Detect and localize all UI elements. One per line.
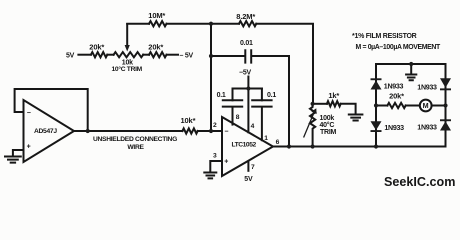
junction node 10M/8.2M [209,22,213,26]
wire 8.2M left [211,23,239,25]
svg-text:8: 8 [236,114,240,121]
junction node -5V rail [246,87,250,91]
svg-text:0.1: 0.1 [267,92,276,99]
wire pin 8 [232,107,234,124]
svg-text:6: 6 [276,139,280,146]
wire 0.01 branch left [211,55,244,57]
junction node 0.01 [209,54,213,58]
junction node bridge right mid [443,103,447,107]
resistor 8.2M [239,21,256,26]
wire [107,54,113,56]
wire pin 1 [261,107,263,140]
arrow wiper 10k pot [125,45,130,52]
junction node 100k bottom [311,144,315,148]
wire pin 8 cap to rail [232,89,234,101]
svg-text:−5V: −5V [239,70,251,77]
svg-text:UNSHIELDED CONNECTING: UNSHIELDED CONNECTING [93,136,177,143]
svg-text:0.01: 0.01 [240,40,253,47]
svg-text:100k: 100k [320,115,335,122]
svg-text:10°C TRIM: 10°C TRIM [112,65,143,73]
diode D4 1N933 bottom-right [440,121,451,130]
wire 10M top [127,23,149,25]
wire 20k to meter [406,105,420,107]
wire to -5V [167,54,179,56]
node 5V input wire [78,54,91,56]
svg-text:1N933: 1N933 [417,83,437,91]
wire 8.2M right and down [256,24,313,104]
wire + input to ground [13,150,24,156]
meter M movement [420,100,432,112]
wire bridge top [376,63,446,65]
svg-text:M = 0µA–100µA MOVEMENT: M = 0µA–100µA MOVEMENT [356,44,442,51]
resistor 20k right [149,52,167,57]
resistor 1k [327,101,341,106]
wire -5V rail [233,88,262,90]
wire bridge right vertical [445,64,447,147]
wire bridge ground stub [410,64,412,74]
wire meter to right vertical [432,105,446,107]
svg-text:M: M [423,101,429,110]
wire pin 1 cap to rail [261,89,263,101]
op-amp U2 LTC1052 [222,117,273,176]
svg-text:0.1: 0.1 [217,92,226,99]
wire pin 7 [247,162,249,171]
diode D1 1N933 top-left [371,80,382,89]
svg-text:1k*: 1k* [328,91,339,100]
op-amp U1 AD547J [24,100,75,162]
svg-text:40°C: 40°C [320,121,335,129]
resistor 20k bridge [387,103,405,108]
wire 1k to ground [341,104,356,114]
wire output pin 6 [273,146,446,148]
wire [143,54,149,56]
wire pin 4 to -5V [247,77,249,133]
svg-text:5V: 5V [244,176,253,183]
potentiometer 100k 40C TRIM [310,104,315,147]
arrow wiper 100k pot [304,108,317,137]
svg-text:*1% FILM RESISTOR: *1% FILM RESISTOR [352,33,417,40]
svg-text:3: 3 [213,152,217,159]
svg-text:1N933: 1N933 [417,124,437,132]
svg-text:1N933: 1N933 [384,83,404,91]
wire op-amp output [74,130,182,132]
ground 1k [349,115,363,121]
junction node AD547J output [86,129,90,133]
resistor 20k left [91,52,107,57]
svg-text:5V: 5V [66,53,75,60]
wire main vertical summing node [210,24,212,131]
svg-text:AD547J: AD547J [34,128,57,135]
wire 10M to summing node [167,23,212,25]
svg-text:10M*: 10M* [148,11,165,20]
svg-text:8.2M*: 8.2M* [236,12,255,21]
potentiometer 10k 10C TRIM [114,52,144,57]
ground LTC pin 3 [204,173,216,179]
capacitor 0.01 [245,50,251,62]
capacitor 0.1 right [252,100,271,106]
wire wiper vertical [126,24,128,47]
svg-text:+: + [224,159,228,166]
svg-text:2: 2 [213,122,217,129]
diode D3 1N933 bottom-left [371,121,382,130]
svg-text:7: 7 [251,164,255,171]
ground AD547J [5,157,21,163]
svg-text:10k*: 10k* [181,116,196,125]
svg-text:1N933: 1N933 [384,124,404,132]
svg-text:20k*: 20k* [89,42,104,51]
svg-text:−: − [27,110,31,117]
svg-text:20k*: 20k* [148,42,163,51]
junction node bridge ground [409,62,413,66]
svg-text:TRIM: TRIM [320,129,337,136]
diode D2 1N933 top-right [440,78,451,88]
resistor 10k unshielded [182,128,197,133]
junction node bridge left bottom [374,144,378,148]
svg-text:4: 4 [251,123,255,130]
svg-text:1: 1 [264,135,268,142]
wire 1k left [313,103,327,105]
svg-text:LTC1052: LTC1052 [232,142,257,149]
resistor 10M [149,21,167,26]
wire feedback loop [15,89,88,131]
svg-text:SeekIC.com: SeekIC.com [384,175,455,189]
wire bridge left vertical [375,64,377,147]
junction node bridge left mid [374,103,378,107]
wire pin 3 ground stub [210,161,222,172]
wire 0.01 branch right and down [252,56,289,147]
svg-text:– 5V: – 5V [180,53,194,60]
junction node 0.01 output [287,144,291,148]
junction node pin 2 [209,129,213,133]
svg-text:20k*: 20k* [389,91,404,100]
junction node 100k top [311,102,315,106]
capacitor 0.1 left [223,100,242,106]
svg-text:+: + [27,144,31,151]
svg-text:WIRE: WIRE [127,144,144,151]
ground bridge top [406,75,416,81]
svg-text:−: − [224,129,228,136]
wire bridge mid left [376,105,387,107]
wire to pin 2 [198,130,222,132]
